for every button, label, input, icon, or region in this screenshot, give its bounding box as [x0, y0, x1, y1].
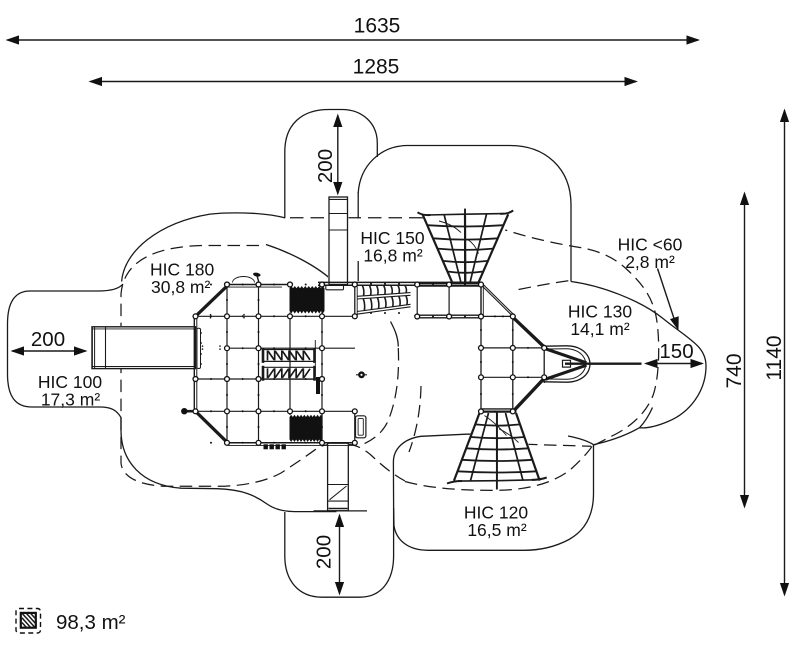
thick corner wall bottom-left	[196, 411, 229, 443]
tower thick diagonals to pole	[513, 317, 545, 347]
svg-text:150: 150	[659, 340, 693, 363]
dark post bar	[316, 377, 320, 394]
hardware dots texture	[210, 284, 212, 286]
left slide (HIC 100)	[92, 327, 196, 369]
dashed free-space outline: right side of main blob	[364, 348, 399, 444]
tower horizontals	[481, 315, 513, 317]
svg-text:17,3 m²: 17,3 m²	[41, 390, 100, 410]
dimension 1635 top	[8, 39, 699, 41]
svg-text:30,8 m²: 30,8 m²	[151, 277, 210, 297]
top slide column	[329, 197, 348, 285]
solid safety zone: HIC<60 lobe right	[571, 282, 706, 428]
corner posts	[225, 282, 230, 287]
solid safety zone: left stadium (HIC 100) + left blob lower boundary	[8, 284, 337, 512]
hatched ramp band 2	[263, 366, 315, 368]
pole funnel (shield)	[544, 346, 590, 382]
svg-text:200: 200	[313, 535, 336, 569]
hatched ramp band 1	[263, 349, 315, 351]
tower diagonal rail (thin double)	[482, 286, 513, 316]
platform squares	[417, 282, 481, 284]
fireman pole	[565, 363, 642, 365]
solid safety zone: lobe cusp fragment	[640, 408, 653, 428]
thick corner wall top-left	[196, 285, 228, 316]
steering wheel attachment	[356, 374, 367, 376]
solid safety zone: lobe to HIC120 cloud	[594, 428, 640, 445]
svg-text:200: 200	[31, 328, 65, 351]
solid safety zone: blob top-right internal arc	[266, 245, 336, 284]
dashed free-space outline: bump over bottom slide, right side	[348, 444, 405, 481]
white mask under top net	[419, 207, 511, 286]
solid safety zone: bump around top slide exit	[285, 110, 378, 218]
legend icon: hatched square	[21, 613, 36, 628]
dimension 200 left	[13, 350, 86, 352]
svg-text:740: 740	[723, 353, 746, 388]
top square gate	[326, 285, 344, 290]
black bridge lower	[290, 418, 323, 443]
svg-text:1140: 1140	[763, 335, 786, 380]
svg-text:2,8 m²: 2,8 m²	[625, 252, 675, 272]
solid safety zone: left blob top-left arc	[122, 213, 286, 282]
svg-text:1285: 1285	[353, 56, 400, 79]
climbing panel window on left wall	[197, 328, 201, 368]
bottom net swing arcs	[485, 416, 507, 436]
tower verticals	[480, 285, 482, 412]
dashed free-space outline: top edge and lobe around pole exit	[290, 217, 420, 219]
grid horizontals	[197, 315, 356, 317]
climbing pole bottom-left	[186, 410, 195, 413]
top net pyramid	[418, 212, 431, 215]
dimension 200 bottom slide	[314, 510, 368, 512]
top net swing arcs	[439, 221, 461, 233]
colon marks	[202, 345, 204, 347]
bridge top rails	[318, 281, 483, 283]
periscope knob top	[253, 272, 261, 277]
dashed free-space outline: under bottom net (U)	[405, 446, 592, 490]
svg-text:16,5 m²: 16,5 m²	[467, 520, 526, 540]
dimension 1140 right	[784, 111, 786, 595]
white mask under bottom net	[454, 414, 540, 479]
black bridge upper (flexible bridge)	[290, 289, 325, 314]
dimension 150 right pole	[646, 363, 702, 365]
dashed free-space outline: main blob around left structure	[121, 246, 336, 487]
white mask under structure	[194, 283, 357, 444]
dashed fragment rising toward cloud corner	[500, 281, 569, 294]
svg-text:1635: 1635	[354, 15, 401, 38]
bridge planks	[363, 286, 364, 296]
bottom net pyramid	[447, 481, 462, 484]
leader arrow for HIC<60	[658, 269, 675, 321]
left block outer walls	[227, 284, 290, 286]
svg-text:98,3 m²: 98,3 m²	[56, 611, 126, 634]
dashed free-space outline: arc descending right of tower	[409, 386, 421, 452]
door swing arc on top edge	[233, 277, 255, 283]
bottom slide column	[328, 443, 349, 511]
dimension 200 top slide	[337, 116, 339, 194]
solid internal arc fragment right of structure	[391, 322, 399, 347]
svg-text:16,8 m²: 16,8 m²	[363, 246, 422, 266]
svg-text:200: 200	[314, 149, 337, 183]
dimension 740 right	[744, 194, 746, 507]
svg-text:14,1 m²: 14,1 m²	[570, 319, 629, 339]
bottom slide gate	[356, 416, 366, 438]
solid safety zone: bump around bottom slide	[285, 505, 394, 597]
solid safety zone: HIC120 cloud (bottom right)	[394, 445, 594, 551]
bottom square side walls	[321, 411, 323, 443]
dashed fragment under pole lobe	[525, 444, 591, 446]
dimension 1285 top	[91, 81, 637, 83]
bridge middle rails	[357, 293, 411, 297]
solid safety zone: big top-right cloud	[358, 146, 571, 282]
comb teeth under bottom wall	[264, 444, 268, 449]
grid verticals	[226, 285, 228, 443]
legend icon: dashed square	[16, 609, 41, 634]
